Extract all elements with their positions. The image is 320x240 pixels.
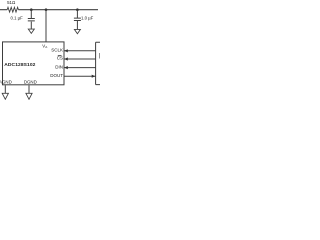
svg-text:51Ω: 51Ω [7, 0, 16, 5]
svg-text:ADC128S102: ADC128S102 [4, 62, 35, 68]
svg-text:DOUT: DOUT [50, 73, 63, 78]
svg-text:0.1 µF: 0.1 µF [11, 15, 24, 20]
svg-text:DGND: DGND [24, 80, 37, 85]
svg-text:VA: VA [42, 44, 48, 50]
svg-text:AGND: AGND [0, 80, 12, 85]
svg-text:CS: CS [57, 56, 63, 61]
svg-text:1.0 µF: 1.0 µF [81, 15, 94, 20]
svg-text:SCLK: SCLK [51, 48, 63, 53]
svg-text:DIN: DIN [55, 64, 63, 69]
